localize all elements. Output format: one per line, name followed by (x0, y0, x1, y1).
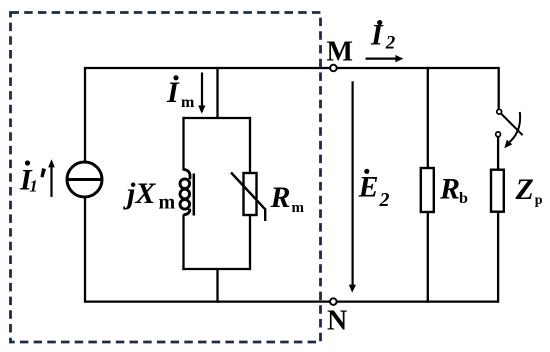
wire: top bus (85, 67, 499, 69)
svg-text:m: m (159, 192, 176, 214)
inductor core line (193, 174, 196, 216)
wire: bottom bus (85, 300, 499, 302)
svg-text:2: 2 (385, 33, 396, 54)
wire: left branch lower segment (84, 198, 86, 303)
node M terminal (330, 65, 337, 72)
node N terminal (330, 298, 337, 305)
resistor Rb (421, 168, 434, 212)
label Rm (270, 181, 305, 216)
wire: Rb branch lower (427, 212, 429, 303)
impedance Zp (491, 170, 504, 212)
svg-text:m: m (181, 94, 195, 111)
label Rb (439, 173, 468, 208)
wire: switch to Zp (497, 137, 499, 171)
svg-text:2: 2 (379, 189, 390, 211)
wire: left branch upper segment (84, 67, 86, 162)
wire: Zp branch lower (497, 211, 499, 303)
label Zp (515, 173, 543, 208)
arrow: E2 (down) (349, 81, 356, 292)
inductor jXm coil (180, 169, 190, 214)
svg-text:m: m (292, 200, 305, 216)
arrow: I1' current direction (up) (48, 159, 55, 197)
label I2 (370, 19, 396, 54)
svg-text:1: 1 (29, 177, 38, 196)
svg-text:b: b (459, 190, 468, 207)
svg-text:jX: jX (123, 177, 156, 210)
svg-text:R: R (439, 173, 460, 206)
arrow: Im (down) (198, 73, 205, 114)
svg-text:R: R (270, 181, 291, 214)
wire: Rb branch upper (427, 67, 429, 169)
dashed boundary box (primary-side referred region) (11, 13, 321, 343)
label Im (166, 75, 195, 111)
varistor Rm (box with diagonal arrow) (231, 173, 265, 222)
svg-text:I: I (166, 76, 180, 109)
svg-text:I: I (370, 19, 384, 52)
svg-text:p: p (535, 193, 543, 208)
switch (open, with closing arrow) (496, 109, 523, 148)
label I1' (19, 160, 46, 196)
label jXm (123, 177, 176, 214)
svg-text:M: M (327, 36, 353, 67)
current source I1' (circle with horizontal bar) (67, 162, 102, 197)
parallel box outline (jXm // Rm loop) (182, 117, 251, 270)
arrow: I2 (right) (366, 55, 404, 62)
svg-text:E: E (358, 171, 379, 204)
wire: Zp branch top (from bus corner to switch) (498, 67, 500, 109)
label E2 (358, 169, 390, 211)
svg-text:Z: Z (515, 173, 534, 206)
wire: magnetizing branch bottom feed (216, 268, 218, 303)
wire: magnetizing branch top feed (216, 67, 218, 119)
svg-text:N: N (327, 306, 347, 337)
